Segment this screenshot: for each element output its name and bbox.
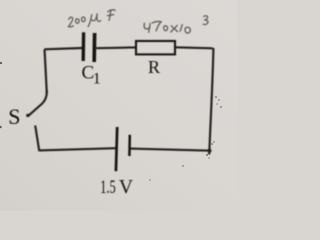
handwritten annotation 200uF (capacitor value) — [68, 10, 115, 27]
wire bottom rail left of battery — [39, 148, 116, 150]
svg-text:1.5: 1.5 — [100, 177, 116, 198]
wire top-left to capacitor — [44, 48, 82, 49]
svg-text:R: R — [148, 57, 160, 77]
scan noise speckles — [0, 62, 222, 181]
svg-text:V: V — [119, 177, 133, 198]
wire left side upper lead — [45, 49, 47, 93]
wire right side — [209, 48, 213, 155]
svg-text:S: S — [8, 104, 20, 129]
capacitor C1 — [83, 32, 94, 62]
wire bottom rail right of battery — [130, 149, 211, 151]
resistor R — [136, 41, 175, 54]
wire capacitor to resistor — [96, 46, 136, 49]
handwritten annotation 470x10^3 (resistor value) — [144, 16, 208, 33]
switch S blade — [29, 91, 47, 116]
wire switch lower lead — [35, 126, 39, 152]
battery — [116, 127, 130, 171]
wire resistor to top-right corner — [175, 47, 213, 48]
svg-text:1: 1 — [93, 71, 101, 88]
